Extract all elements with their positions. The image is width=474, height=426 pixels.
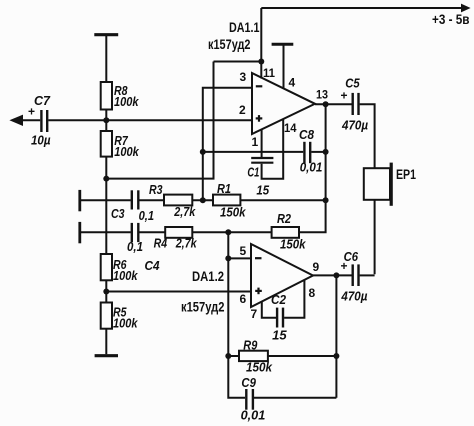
wire C8 line	[203, 151, 326, 153]
node supply junction	[258, 59, 264, 65]
wire R6-R5	[105, 280, 107, 302]
wire input line 2	[81, 231, 131, 233]
node pin6 junction	[103, 289, 109, 295]
resistor R2	[272, 227, 299, 238]
svg-text:14: 14	[284, 121, 297, 135]
svg-text:C3: C3	[111, 207, 125, 221]
svg-text:100k: 100k	[114, 95, 139, 109]
svg-text:6: 6	[240, 292, 247, 306]
wire input line 1	[81, 199, 131, 201]
svg-text:к157уд2: к157уд2	[181, 300, 225, 315]
wire DA1.1 output	[315, 103, 352, 105]
svg-text:EP1: EP1	[396, 167, 416, 182]
wire pin4	[272, 44, 294, 88]
wire R1 to output bus	[240, 199, 325, 201]
svg-text:+3 - 5в: +3 - 5в	[432, 12, 470, 27]
node R1 right junction	[323, 197, 329, 203]
svg-text:0,01: 0,01	[300, 161, 323, 175]
svg-text:C1: C1	[247, 166, 259, 180]
svg-text:150k: 150k	[220, 206, 246, 220]
capacitor C7	[20, 110, 47, 132]
resistor R7	[101, 131, 112, 157]
minus mark DA1.2	[255, 257, 262, 259]
svg-text:R1: R1	[217, 182, 231, 196]
wire R7 to R6 bus	[105, 157, 107, 254]
wire R8-R7	[105, 110, 107, 132]
wire bias feed vertical	[106, 62, 213, 179]
svg-text:DA1.1: DA1.1	[229, 20, 260, 35]
svg-text:11: 11	[263, 66, 275, 80]
resistor R1	[213, 195, 240, 206]
input bar 1	[78, 190, 81, 211]
capacitor C9	[246, 389, 336, 410]
svg-text:150k: 150k	[246, 361, 273, 375]
svg-text:7: 7	[251, 307, 258, 321]
plus mark DA1.2	[255, 288, 262, 295]
svg-text:2,7k: 2,7k	[173, 205, 196, 219]
svg-text:100k: 100k	[113, 317, 138, 331]
svg-text:150k: 150k	[280, 238, 306, 252]
svg-text:+: +	[341, 88, 348, 102]
earphone EP1	[364, 163, 391, 275]
svg-text:15: 15	[256, 184, 270, 198]
minus mark DA1.1	[256, 85, 262, 87]
svg-text:3: 3	[240, 70, 247, 84]
svg-text:C7: C7	[34, 94, 51, 108]
node C8 left junction	[200, 149, 206, 155]
node R3-R1 junction	[200, 197, 206, 203]
svg-text:DA1.2: DA1.2	[192, 269, 224, 284]
svg-text:0,1: 0,1	[139, 209, 155, 223]
svg-text:0,01: 0,01	[241, 409, 266, 423]
wire DA1.2 output bus	[335, 275, 337, 397]
svg-text:0,1: 0,1	[127, 240, 143, 254]
node pin5 junction	[225, 255, 231, 261]
ground T-bar top	[94, 35, 118, 82]
wire pin5 line	[228, 257, 251, 259]
svg-text:R4: R4	[154, 237, 168, 251]
wire +supply rail	[214, 8, 463, 79]
wire R3 to R1	[192, 199, 213, 201]
svg-text:4: 4	[289, 76, 296, 90]
wire pin6 line	[106, 291, 251, 293]
wire pin2 line	[48, 119, 252, 121]
wire R2 to output bus corner	[299, 104, 326, 232]
node C8 right junction	[323, 149, 329, 155]
capacitor C6	[353, 264, 375, 286]
node pin5 bus top	[225, 229, 231, 235]
svg-text:2,7k: 2,7k	[175, 237, 198, 251]
capacitor C1 correction	[251, 119, 283, 179]
wire pin5 bus	[228, 232, 245, 398]
plus mark DA1.1	[256, 115, 263, 122]
arrow supply terminal	[461, 4, 471, 13]
svg-text:470µ: 470µ	[341, 119, 368, 133]
input bar 2	[78, 222, 81, 243]
node R9 right junction	[333, 353, 339, 359]
node DA1.2 output	[333, 272, 339, 278]
svg-text:2: 2	[239, 103, 246, 117]
wire R4 to R2	[192, 231, 271, 233]
resistor R4	[165, 227, 192, 238]
node DA1.1 output	[323, 101, 329, 107]
svg-text:C9: C9	[241, 376, 256, 390]
svg-text:C4: C4	[145, 259, 160, 273]
svg-text:8: 8	[309, 286, 316, 300]
svg-text:100k: 100k	[113, 269, 138, 283]
svg-text:C8: C8	[299, 128, 314, 142]
op-amp DA1.1	[252, 73, 315, 134]
svg-text:5: 5	[240, 244, 247, 258]
svg-text:1: 1	[252, 135, 259, 149]
node R7 bottom	[103, 176, 109, 182]
arrow output terminal	[9, 115, 23, 126]
node C7 junction	[103, 117, 109, 123]
resistor R3	[164, 195, 192, 206]
resistor R6	[101, 254, 112, 280]
svg-text:100k: 100k	[114, 145, 139, 159]
op-amp DA1.2	[251, 244, 313, 307]
wire pin3 line	[203, 88, 252, 201]
svg-text:+: +	[28, 104, 35, 118]
svg-text:R2: R2	[277, 212, 291, 226]
capacitor C3	[132, 190, 139, 209]
svg-text:10µ: 10µ	[31, 134, 51, 148]
capacitor C2 correction	[262, 280, 305, 328]
capacitor C4	[132, 223, 139, 242]
svg-text:470µ: 470µ	[340, 290, 367, 304]
ground bar bottom	[95, 329, 118, 356]
svg-text:C2: C2	[271, 293, 286, 307]
resistor R9	[228, 351, 336, 361]
wire C4 to R4	[139, 231, 165, 233]
svg-text:R9: R9	[243, 339, 257, 353]
svg-text:+: +	[341, 259, 348, 273]
capacitor C8	[304, 142, 310, 163]
wire C3 to R3	[139, 199, 164, 201]
svg-text:13: 13	[316, 88, 328, 102]
node R9 left junction	[225, 353, 231, 359]
svg-text:к157уд2: к157уд2	[208, 37, 251, 52]
capacitor C5	[353, 93, 375, 168]
resistor R8	[101, 82, 112, 110]
svg-text:R3: R3	[149, 183, 163, 197]
svg-text:C5: C5	[345, 77, 360, 91]
resistor R5	[101, 303, 112, 329]
wire DA1.2 output	[313, 274, 352, 276]
svg-text:15: 15	[272, 329, 288, 343]
svg-text:9: 9	[313, 260, 320, 274]
